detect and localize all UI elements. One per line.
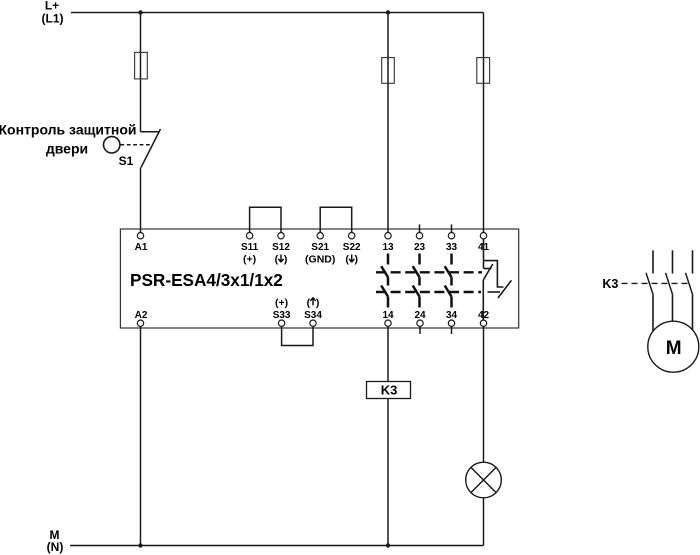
wire branch 2 upper (L+ to 13) — [387, 13, 389, 233]
svg-text:(+): (+) — [243, 254, 256, 266]
contact 41-42 (two NC contacts in series) — [483, 239, 511, 320]
terminal 13 — [382, 233, 394, 254]
wire coil K3 to rail — [387, 399, 389, 546]
svg-text:A1: A1 — [135, 242, 148, 253]
node M label — [47, 528, 64, 554]
mechanical coupling dashed line upper — [376, 271, 482, 273]
wire branch 3 upper (L+ to 41) — [483, 13, 485, 233]
terminal 23 — [414, 233, 426, 254]
contact 23-24 (two NO contacts in series) — [413, 254, 420, 308]
svg-text:23: 23 — [414, 242, 426, 253]
dashed actuator link S1 — [120, 144, 151, 146]
contactor contact K3 phase 1 — [646, 250, 653, 331]
contact 33-34 (two NO contacts in series) — [445, 254, 452, 308]
contactor contact K3 phase 3 — [686, 250, 693, 330]
svg-text:PSR-ESA4/3x1/1x2: PSR-ESA4/3x1/1x2 — [130, 270, 283, 290]
svg-text:(: ( — [307, 297, 311, 309]
svg-text:(: ( — [275, 254, 279, 266]
terminal 34 — [446, 310, 458, 326]
wire stub terminal 34 — [451, 327, 453, 334]
svg-text:S22: S22 — [343, 242, 361, 253]
wire top supply rail L+ — [71, 12, 484, 14]
label Kontrol zashchitnoy dveri — [0, 122, 137, 157]
wire bottom return rail M — [70, 545, 484, 547]
svg-text:(: ( — [345, 254, 349, 266]
terminal 41 — [478, 233, 490, 254]
terminal A2 — [135, 310, 148, 326]
svg-text:34: 34 — [446, 310, 458, 321]
wire S1 to A1 — [140, 168, 142, 233]
svg-text:Контроль защитной: Контроль защитной — [0, 122, 137, 138]
svg-text:M: M — [666, 338, 682, 359]
svg-text:S1: S1 — [119, 154, 134, 168]
fuse F3 — [477, 58, 490, 84]
terminal 33 — [446, 233, 458, 254]
svg-text:S33: S33 — [273, 310, 291, 321]
wire 42 down to lamp — [483, 327, 485, 462]
terminal 42 — [478, 310, 490, 326]
svg-text:13: 13 — [382, 242, 394, 253]
actuator head of S1 — [104, 137, 120, 153]
terminal A1 — [135, 233, 148, 254]
wire stub terminal 23 — [419, 224, 421, 232]
svg-text:K3: K3 — [381, 383, 398, 398]
junction node M/branch2 — [386, 543, 390, 547]
svg-text:K3: K3 — [602, 277, 618, 291]
node L+ label — [42, 0, 64, 26]
switch S1 blade — [141, 129, 161, 168]
svg-text:33: 33 — [446, 242, 458, 253]
wire vertical branch 1 upper (L+ to S1) — [140, 13, 142, 132]
svg-text:S21: S21 — [311, 242, 329, 253]
svg-text:): ) — [284, 254, 288, 266]
switch S1 fixed contact — [141, 131, 159, 133]
svg-text:(GND): (GND) — [305, 254, 335, 266]
junction node L+/branch1 — [138, 10, 142, 14]
jumper S11-S12 — [250, 207, 281, 232]
svg-text:S11: S11 — [241, 242, 259, 253]
svg-text:14: 14 — [382, 310, 394, 321]
svg-text:S12: S12 — [272, 242, 290, 253]
svg-text:двери: двери — [46, 141, 88, 157]
svg-text:24: 24 — [414, 310, 426, 321]
junction node L+/branch2 — [386, 10, 390, 14]
terminal 14 — [382, 310, 394, 326]
coil K3 — [367, 382, 411, 399]
terminal S22 — [343, 233, 361, 266]
terminal S33 — [273, 297, 291, 326]
svg-text:): ) — [355, 254, 359, 266]
wire stub terminal 33 — [451, 224, 453, 232]
jumper S21-S22 — [320, 207, 352, 232]
svg-text:A2: A2 — [135, 310, 148, 321]
relay block PSR-ESA4/3x1/1x2 outline — [120, 229, 518, 328]
wire A2 down to rail — [140, 327, 142, 546]
lamp indicator — [466, 462, 502, 498]
wire lamp to rail — [483, 498, 485, 545]
terminal S34 — [304, 297, 322, 326]
jumper S33-S34 — [282, 327, 313, 346]
svg-text:): ) — [316, 297, 320, 309]
wire 14 down to coil K3 — [387, 327, 389, 382]
junction node M/branch1 — [138, 543, 142, 547]
terminal S21 — [305, 233, 335, 266]
svg-text:(L1): (L1) — [42, 12, 64, 26]
terminal S11 — [241, 233, 259, 266]
svg-text:(+): (+) — [275, 297, 288, 309]
wire stub terminal 24 — [419, 327, 421, 334]
motor M — [648, 321, 699, 372]
dashed actuator link contactor K3 — [622, 282, 688, 284]
terminal S12 — [272, 233, 290, 266]
contact 13-14 (two NO contacts in series) — [381, 254, 388, 308]
fuse F1 — [135, 52, 148, 79]
fuse F2 — [382, 58, 395, 84]
terminal 24 — [414, 310, 426, 326]
svg-text:(N): (N) — [47, 540, 64, 554]
mechanical coupling dashed line lower — [376, 291, 481, 293]
svg-text:S34: S34 — [304, 310, 322, 321]
contactor contact K3 phase 2 — [666, 250, 673, 321]
